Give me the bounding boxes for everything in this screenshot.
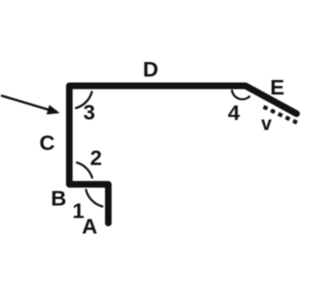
svg-text:1: 1 bbox=[72, 199, 84, 223]
svg-text:D: D bbox=[143, 57, 159, 81]
svg-text:3: 3 bbox=[83, 101, 95, 125]
node arc 2 bbox=[77, 163, 92, 178]
node arc 1 bbox=[86, 190, 102, 207]
wire: dashed hem line bbox=[264, 107, 298, 123]
svg-text:B: B bbox=[51, 187, 67, 211]
node arc 3 bbox=[76, 92, 92, 108]
wire: flashing profile A-B-C-D-E bbox=[69, 86, 296, 223]
node arc 4 bbox=[232, 91, 249, 100]
svg-text:2: 2 bbox=[90, 146, 102, 170]
svg-text:v: v bbox=[261, 114, 272, 135]
node arrow pointer bbox=[1, 96, 50, 111]
svg-text:C: C bbox=[39, 131, 55, 155]
svg-text:E: E bbox=[270, 75, 284, 99]
svg-text:4: 4 bbox=[228, 101, 240, 125]
